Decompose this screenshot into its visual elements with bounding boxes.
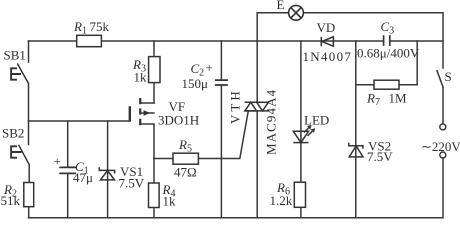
- svg-text:R5: R5: [178, 137, 192, 155]
- svg-text:150μ: 150μ: [182, 76, 209, 91]
- svg-text:+: +: [54, 154, 61, 169]
- svg-text:R7: R7: [366, 91, 380, 109]
- svg-text:47μ: 47μ: [73, 170, 93, 185]
- svg-text:7.5V: 7.5V: [367, 149, 393, 164]
- svg-text:3DO1H: 3DO1H: [158, 113, 199, 128]
- svg-text:LED: LED: [304, 113, 329, 128]
- svg-text:+: +: [206, 60, 213, 75]
- svg-text:1k: 1k: [134, 70, 148, 85]
- svg-text:C3: C3: [381, 19, 395, 37]
- svg-text:∼220V: ∼220V: [421, 139, 460, 154]
- svg-text:SB1: SB1: [4, 48, 26, 63]
- svg-text:1M: 1M: [389, 91, 408, 106]
- svg-text:47Ω: 47Ω: [174, 165, 197, 180]
- svg-text:R175k: R175k: [73, 19, 109, 37]
- svg-text:VD: VD: [317, 20, 336, 35]
- svg-text:E: E: [277, 0, 285, 12]
- svg-text:1N4007: 1N4007: [303, 49, 353, 64]
- svg-text:0.68μ/400V: 0.68μ/400V: [357, 46, 420, 61]
- svg-text:7.5V: 7.5V: [119, 176, 145, 191]
- svg-text:S: S: [445, 69, 452, 84]
- svg-text:51k: 51k: [1, 193, 21, 208]
- svg-text:1k: 1k: [163, 194, 177, 209]
- svg-text:MAC94A4: MAC94A4: [264, 89, 279, 155]
- svg-text:SB2: SB2: [2, 126, 24, 141]
- svg-text:1.2k: 1.2k: [270, 193, 293, 208]
- svg-text:VTH: VTH: [228, 88, 243, 124]
